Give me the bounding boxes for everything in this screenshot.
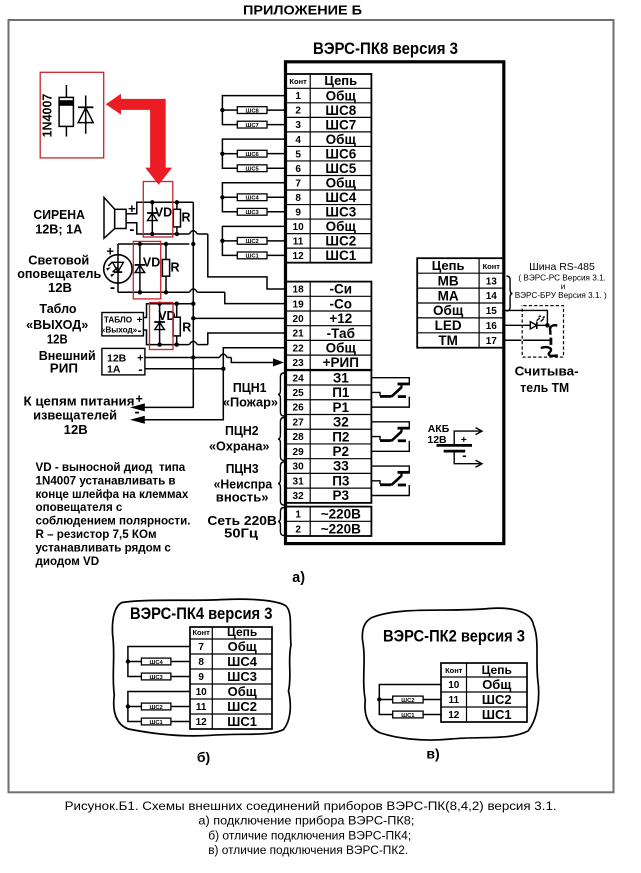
svg-text:ШС7: ШС7 xyxy=(246,123,259,129)
svg-text:Общ: Общ xyxy=(482,677,511,692)
svg-text:R: R xyxy=(170,261,179,275)
svg-text:тель ТМ: тель ТМ xyxy=(520,380,569,395)
svg-text:LED: LED xyxy=(435,318,462,333)
svg-text:К цепям питания: К цепям питания xyxy=(24,393,135,408)
svg-text:11: 11 xyxy=(293,236,304,247)
svg-text:50Гц: 50Гц xyxy=(224,526,258,541)
svg-text:14: 14 xyxy=(486,291,498,302)
svg-text:и: и xyxy=(561,282,566,291)
svg-text:12В: 12В xyxy=(107,352,127,364)
svg-text:ШС1: ШС1 xyxy=(401,713,415,719)
svg-text:21: 21 xyxy=(293,329,305,340)
svg-text:+РИП: +РИП xyxy=(323,355,359,370)
svg-text:ШС1: ШС1 xyxy=(325,248,356,263)
svg-text:З3: З3 xyxy=(333,459,349,474)
svg-text:ШС5: ШС5 xyxy=(246,167,260,173)
svg-text:Общ: Общ xyxy=(326,219,357,234)
svg-text:ШС5: ШС5 xyxy=(325,161,356,176)
svg-text:ШС4: ШС4 xyxy=(150,660,164,666)
svg-text:ШС3: ШС3 xyxy=(325,205,356,220)
svg-text:29: 29 xyxy=(293,447,305,458)
svg-text:ШС6: ШС6 xyxy=(325,146,356,161)
svg-text:З1: З1 xyxy=(333,370,349,385)
svg-text:«Выход»: «Выход» xyxy=(101,326,138,335)
svg-text:МА: МА xyxy=(438,288,459,303)
svg-text:-Со: -Со xyxy=(330,296,353,311)
svg-text:9: 9 xyxy=(295,207,301,218)
svg-text:ШС4: ШС4 xyxy=(325,190,356,205)
svg-text:-Таб: -Таб xyxy=(327,326,355,341)
svg-text:26: 26 xyxy=(293,403,305,414)
svg-text:вность»: вность» xyxy=(216,489,269,504)
svg-text:1N4007: 1N4007 xyxy=(41,94,55,138)
svg-text:10: 10 xyxy=(293,222,305,233)
svg-text:б): б) xyxy=(197,749,210,765)
svg-text:Общ: Общ xyxy=(228,639,257,654)
svg-text:6: 6 xyxy=(295,164,301,175)
svg-text:ШС6: ШС6 xyxy=(246,152,260,158)
svg-text:Р3: Р3 xyxy=(333,488,350,503)
svg-text:ШС2: ШС2 xyxy=(482,692,512,707)
svg-text:R – резистор 7,5 КОм: R – резистор 7,5 КОм xyxy=(36,528,157,541)
svg-text:Цепь: Цепь xyxy=(324,73,357,88)
svg-text:12: 12 xyxy=(196,717,208,728)
svg-text:1А: 1А xyxy=(107,364,121,376)
svg-text:Шина RS-485: Шина RS-485 xyxy=(529,261,595,273)
svg-text:12В; 1А: 12В; 1А xyxy=(35,221,83,236)
svg-text:22: 22 xyxy=(293,343,305,354)
svg-text:+12: +12 xyxy=(329,311,352,326)
svg-text:18: 18 xyxy=(293,285,305,296)
svg-text:Общ: Общ xyxy=(326,88,357,103)
svg-text:20: 20 xyxy=(293,314,305,325)
svg-text:П1: П1 xyxy=(332,385,350,400)
svg-text:СИРЕНА: СИРЕНА xyxy=(33,207,85,222)
svg-text:Конт: Конт xyxy=(445,666,463,675)
svg-text:а) подключение прибора ВЭРС-ПК: а) подключение прибора ВЭРС-ПК8; xyxy=(198,814,414,828)
svg-text:10: 10 xyxy=(196,687,208,698)
svg-text:12: 12 xyxy=(448,710,460,721)
svg-text:ШС7: ШС7 xyxy=(325,117,356,132)
svg-text:~220В: ~220В xyxy=(321,507,361,522)
svg-text:ШС3: ШС3 xyxy=(150,675,164,681)
svg-text:VD: VD xyxy=(143,256,160,270)
svg-text:3: 3 xyxy=(295,120,301,131)
svg-text:«ВЫХОД»: «ВЫХОД» xyxy=(26,317,88,332)
svg-text:ПРИЛОЖЕНИЕ Б: ПРИЛОЖЕНИЕ Б xyxy=(243,3,362,18)
svg-text:Общ: Общ xyxy=(326,175,357,190)
svg-text:устанавливать рядом с: устанавливать рядом с xyxy=(36,541,172,554)
svg-text:8: 8 xyxy=(198,657,204,668)
svg-text:РИП: РИП xyxy=(50,361,78,376)
svg-text:11: 11 xyxy=(448,695,459,706)
svg-text:конце шлейфа на клеммах: конце шлейфа на клеммах xyxy=(36,488,189,501)
svg-text:-: - xyxy=(135,404,140,421)
svg-text:ШС8: ШС8 xyxy=(246,108,260,114)
svg-text:ШС2: ШС2 xyxy=(246,239,259,245)
svg-text:ВЭРС-ПК8 версия 3: ВЭРС-ПК8 версия 3 xyxy=(313,40,458,58)
svg-text:R: R xyxy=(182,321,191,335)
svg-text:в) отличие подключения ВЭРС-ПК: в) отличие подключения ВЭРС-ПК2. xyxy=(208,843,408,857)
svg-text:11: 11 xyxy=(196,702,207,713)
svg-text:-Си: -Си xyxy=(330,282,353,297)
svg-text:«Пожар»: «Пожар» xyxy=(223,395,278,410)
svg-text:10: 10 xyxy=(448,680,460,691)
svg-text:ШС2: ШС2 xyxy=(227,699,257,714)
svg-text:Считыва-: Считыва- xyxy=(515,364,579,379)
svg-text:R: R xyxy=(181,211,190,225)
svg-text:~220В: ~220В xyxy=(321,521,361,536)
svg-text:ТМ: ТМ xyxy=(438,333,458,348)
svg-text:ШС8: ШС8 xyxy=(325,103,356,118)
svg-text:Конт: Конт xyxy=(289,77,307,86)
svg-text:12В: 12В xyxy=(48,280,72,295)
svg-text:Общ: Общ xyxy=(433,303,464,318)
svg-text:Общ: Общ xyxy=(326,340,357,355)
svg-text:ШС3: ШС3 xyxy=(227,669,257,684)
svg-text:Общ: Общ xyxy=(228,684,257,699)
svg-text:а): а) xyxy=(292,570,305,586)
svg-text:7: 7 xyxy=(295,178,301,189)
svg-text:7: 7 xyxy=(198,642,204,653)
svg-text:-: - xyxy=(462,448,466,463)
svg-text:27: 27 xyxy=(293,417,305,428)
svg-text:ТАБЛО: ТАБЛО xyxy=(104,315,133,324)
svg-text:ВЭРС-БРУ Версия 3.1. ): ВЭРС-БРУ Версия 3.1. ) xyxy=(515,291,607,300)
svg-text:Конт: Конт xyxy=(483,262,501,271)
svg-text:1: 1 xyxy=(295,510,301,521)
svg-text:25: 25 xyxy=(293,388,305,399)
svg-text:Цепь: Цепь xyxy=(482,663,512,677)
svg-text:Цепь: Цепь xyxy=(227,625,257,639)
svg-text:оповещатель: оповещатель xyxy=(17,266,101,281)
svg-text:ШС3: ШС3 xyxy=(246,210,260,216)
svg-text:32: 32 xyxy=(293,491,305,502)
svg-text:П3: П3 xyxy=(332,473,350,488)
svg-text:12: 12 xyxy=(293,251,305,262)
svg-text:VD - выносной диод типа: VD - выносной диод типа xyxy=(36,461,186,474)
svg-text:«Охрана»: «Охрана» xyxy=(209,439,269,454)
svg-text:П2: П2 xyxy=(332,429,349,444)
svg-text:Цепь: Цепь xyxy=(432,258,465,273)
svg-text:ПЦН1: ПЦН1 xyxy=(233,380,267,395)
svg-text:-: - xyxy=(110,279,115,296)
svg-text:23: 23 xyxy=(293,358,305,369)
svg-text:ШС4: ШС4 xyxy=(246,196,260,202)
svg-text:12В: 12В xyxy=(47,332,68,346)
svg-text:30: 30 xyxy=(293,462,305,473)
svg-text:1: 1 xyxy=(295,91,301,102)
svg-text:Р1: Р1 xyxy=(333,400,350,415)
svg-text:Табло: Табло xyxy=(39,301,76,316)
svg-text:VD: VD xyxy=(155,206,172,220)
svg-text:ШС1: ШС1 xyxy=(227,714,257,729)
svg-text:17: 17 xyxy=(486,336,498,347)
svg-text:15: 15 xyxy=(486,306,498,317)
svg-text:+: + xyxy=(461,435,467,446)
svg-text:16: 16 xyxy=(486,321,498,332)
svg-text:соблюдением полярности.: соблюдением полярности. xyxy=(36,515,191,528)
svg-text:19: 19 xyxy=(293,299,305,310)
svg-text:ШС2: ШС2 xyxy=(401,698,414,704)
svg-text:ВЭРС-ПК4 версия 3: ВЭРС-ПК4 версия 3 xyxy=(130,605,273,623)
svg-text:З2: З2 xyxy=(333,415,349,430)
svg-text:извещателей: извещателей xyxy=(33,408,117,423)
svg-text:в): в) xyxy=(426,746,439,762)
svg-text:ШС2: ШС2 xyxy=(150,705,163,711)
svg-text:Рисунок.Б1. Схемы внешних соед: Рисунок.Б1. Схемы внешних соединений при… xyxy=(65,799,557,813)
svg-text:1N4007 устанавливать в: 1N4007 устанавливать в xyxy=(36,474,176,487)
svg-text:4: 4 xyxy=(295,135,301,146)
svg-text:12В: 12В xyxy=(64,422,88,437)
svg-text:ШС2: ШС2 xyxy=(325,234,356,249)
svg-text:ВЭРС-ПК2 версия 3: ВЭРС-ПК2 версия 3 xyxy=(383,628,525,646)
svg-text:8: 8 xyxy=(295,193,301,204)
svg-text:9: 9 xyxy=(198,672,204,683)
svg-text:ПЦН3: ПЦН3 xyxy=(226,461,259,476)
svg-text:Р2: Р2 xyxy=(333,444,350,459)
svg-text:оповещателя с: оповещателя с xyxy=(36,501,123,514)
svg-text:2: 2 xyxy=(295,524,301,535)
svg-text:5: 5 xyxy=(295,149,301,160)
svg-text:Конт: Конт xyxy=(192,628,210,637)
svg-text:Общ: Общ xyxy=(326,132,357,147)
svg-text:диодом VD: диодом VD xyxy=(36,555,100,568)
svg-text:24: 24 xyxy=(293,373,305,384)
svg-text:ШС1: ШС1 xyxy=(482,707,512,722)
svg-text:31: 31 xyxy=(293,476,305,487)
svg-text:ШС1: ШС1 xyxy=(150,720,164,726)
svg-text:ШС1: ШС1 xyxy=(246,254,260,260)
svg-text:2: 2 xyxy=(295,106,301,117)
svg-text:МВ: МВ xyxy=(438,273,459,288)
svg-text:б) отличие подключения ВЭРС-ПК: б) отличие подключения ВЭРС-ПК4; xyxy=(208,829,411,843)
svg-text:13: 13 xyxy=(486,276,498,287)
svg-text:ШС4: ШС4 xyxy=(227,654,257,669)
svg-text:+: + xyxy=(106,244,114,259)
svg-text:-: - xyxy=(138,323,142,337)
svg-text:28: 28 xyxy=(293,432,305,443)
svg-text:-: - xyxy=(138,361,142,376)
svg-text:ПЦН2: ПЦН2 xyxy=(225,423,259,438)
